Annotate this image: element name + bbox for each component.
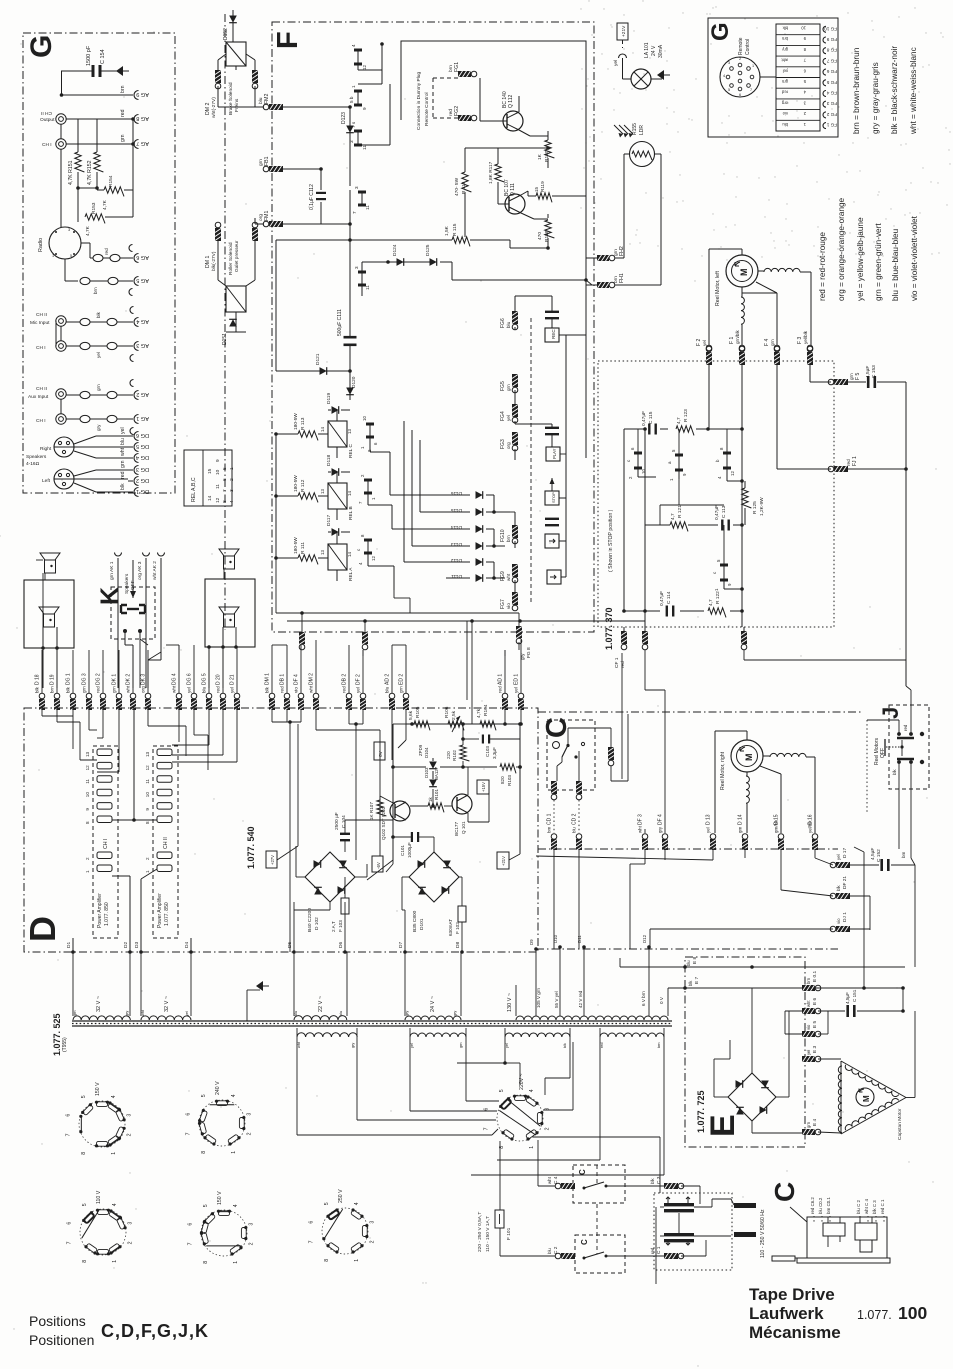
svg-text:D111: D111 <box>451 573 462 579</box>
wire Q112 collector <box>518 100 520 112</box>
svg-text:4,5µF: 4,5µF <box>845 992 850 1004</box>
svg-text:14: 14 <box>347 552 352 557</box>
svg-text:4,7: 4,7 <box>676 417 682 424</box>
wire right verticals <box>914 865 916 967</box>
svg-text:AG 5: AG 5 <box>136 277 149 283</box>
diode D114 <box>450 528 470 530</box>
power amp strip CH II <box>153 746 178 938</box>
jack oval AG6 a <box>93 254 103 261</box>
svg-text:22 V ~: 22 V ~ <box>318 996 324 1012</box>
plug below F left <box>299 632 305 644</box>
capacitor C152 4.5uF <box>880 859 883 871</box>
svg-text:Q102 SDT 9202: Q102 SDT 9202 <box>381 806 386 840</box>
mic ovals row1 <box>80 318 90 325</box>
section box E border <box>685 957 805 1147</box>
svg-text:red: red <box>781 90 788 95</box>
svg-text:5: 5 <box>82 1203 88 1206</box>
svg-text:Left: Left <box>42 478 51 484</box>
svg-text:7: 7 <box>188 1242 194 1245</box>
wire FB1 <box>283 168 321 170</box>
svg-text:blk: blk <box>892 769 897 775</box>
bus line row2 <box>538 848 838 850</box>
capacitor C104 2500uF <box>340 833 350 835</box>
svg-text:org AK 3: org AK 3 <box>137 561 143 580</box>
wire jack chain <box>60 124 62 139</box>
svg-text:red: red <box>600 1043 604 1049</box>
svg-text:4: 4 <box>229 500 235 503</box>
motor capacitor 1 <box>664 1203 694 1206</box>
svg-text:C 3: C 3 <box>656 1176 662 1184</box>
svg-text:2: 2 <box>739 57 741 61</box>
svg-text:grn: grn <box>120 134 126 142</box>
section divider C top <box>538 711 862 713</box>
svg-text:STOP: STOP <box>551 492 556 503</box>
svg-text:630mAT: 630mAT <box>448 919 453 936</box>
svg-text:7: 7 <box>309 1240 315 1243</box>
svg-text:Positions: Positions <box>29 1313 86 1329</box>
svg-text:blk: blk <box>66 686 71 693</box>
svg-text:blk: blk <box>836 885 841 891</box>
wire Q111 emitter <box>521 213 534 219</box>
wire AD1 ED1 below bus <box>504 710 506 724</box>
lamp LA101 <box>631 69 651 89</box>
svg-text:1: 1 <box>229 467 235 470</box>
contact 5-c-9 low <box>723 565 725 580</box>
svg-text:blk(-27V): blk(-27V) <box>211 251 217 271</box>
svg-text:C103: C103 <box>485 746 490 757</box>
wires J box <box>901 740 903 756</box>
selector 110V <box>80 1209 126 1255</box>
svg-text:3: 3 <box>68 228 70 232</box>
svg-text:R153: R153 <box>91 202 97 214</box>
svg-text:red: red <box>216 686 221 693</box>
svg-text:32 V ~: 32 V ~ <box>164 996 170 1012</box>
plug FG1 dummy <box>458 71 471 77</box>
fuse F1 <box>739 345 745 351</box>
wire amp link pin8 <box>112 819 157 821</box>
svg-text:CH II: CH II <box>41 110 52 116</box>
svg-text:5: 5 <box>81 1095 87 1098</box>
plug right of switch <box>567 728 569 745</box>
svg-text:2: 2 <box>229 478 235 481</box>
svg-text:14: 14 <box>207 495 213 501</box>
svg-text:wht: wht <box>172 685 177 693</box>
wire contact 131 to box <box>358 144 390 146</box>
svg-text:REC: REC <box>551 329 556 339</box>
svg-text:grn: grn <box>849 373 854 380</box>
plug DG 5 <box>206 693 212 699</box>
plug DM2 right <box>252 70 258 83</box>
svg-text:6: 6 <box>67 1222 73 1225</box>
jack oval AG5 <box>80 277 90 284</box>
svg-text:7: 7 <box>66 1133 72 1136</box>
svg-text:1: 1 <box>351 85 356 88</box>
svg-text:D124: D124 <box>392 244 398 256</box>
terminal DG 3 <box>134 466 139 475</box>
wire group DB2 below bus <box>348 710 350 724</box>
svg-text:D8: D8 <box>455 942 461 948</box>
svg-text:red = red-rot-rouge: red = red-rot-rouge <box>818 232 827 301</box>
svg-text:DM 2: DM 2 <box>309 673 315 685</box>
svg-text:6 V brn: 6 V brn <box>641 991 646 1006</box>
resistor R111 180-5W <box>276 557 298 559</box>
svg-text:+15V: +15V <box>481 782 486 792</box>
fuse F4 <box>774 345 780 351</box>
diode D120 <box>349 371 351 400</box>
svg-text:yel: yel <box>836 854 841 860</box>
plug DM1 right <box>252 228 258 241</box>
svg-text:D 21: D 21 <box>230 674 236 685</box>
plug DG 2 <box>100 693 106 699</box>
svg-text:4: 4 <box>354 1202 360 1205</box>
resistor R101 1k <box>428 803 444 813</box>
resistor R125 1.2K-9W <box>744 481 746 488</box>
secondary winding 32V b <box>141 1016 191 1020</box>
svg-text:yel: yel <box>230 687 235 693</box>
resistor R120 1K <box>547 131 549 138</box>
wire Q112 base <box>480 120 507 122</box>
svg-text:Remote: Remote <box>738 37 744 55</box>
wire motor top to F2 <box>741 249 743 255</box>
LDR R155 <box>630 142 655 167</box>
mains plug body <box>807 1217 887 1258</box>
svg-text:100: 100 <box>898 1303 927 1323</box>
indicator REC box <box>545 328 559 342</box>
svg-text:470- 5W: 470- 5W <box>454 177 460 196</box>
svg-text:30mA: 30mA <box>658 44 664 58</box>
svg-text:wht: wht <box>806 1000 811 1007</box>
svg-text:Freins: Freins <box>234 98 240 112</box>
svg-text:blu C 2: blu C 2 <box>856 1200 861 1214</box>
resistor R107 1K <box>377 800 387 816</box>
label +27V box <box>266 851 277 868</box>
wire relay rail down <box>275 240 277 371</box>
mains switch box upper <box>573 1165 625 1203</box>
mains plug insert b <box>855 1223 877 1240</box>
svg-text:grn/blk: grn/blk <box>735 330 740 344</box>
svg-text:150 V: 150 V <box>217 1191 223 1205</box>
svg-text:blu: blu <box>572 827 577 833</box>
svg-text:red: red <box>498 686 503 693</box>
svg-text:brn: brn <box>806 977 811 984</box>
svg-text:1: 1 <box>52 254 54 258</box>
diode D121 <box>276 370 350 372</box>
svg-text:D112: D112 <box>451 557 462 563</box>
svg-text:AG 8: AG 8 <box>136 115 149 121</box>
svg-text:red C6.2: red C6.2 <box>810 1197 815 1214</box>
svg-text:blu: blu <box>294 1011 298 1016</box>
svg-text:FG 6: FG 6 <box>826 69 837 74</box>
svg-text:3: 3 <box>248 1223 254 1226</box>
wire rail 429 <box>624 428 645 430</box>
svg-text:DG 2: DG 2 <box>136 477 149 483</box>
resistor R151 4.7K <box>77 119 79 152</box>
svg-text:F 102: F 102 <box>455 922 460 934</box>
svg-text:CH II: CH II <box>163 837 169 849</box>
svg-text:8: 8 <box>85 821 90 824</box>
svg-text:D115: D115 <box>451 507 462 513</box>
wire motor right top <box>746 731 748 740</box>
wire selector pin3 up <box>543 1109 573 1111</box>
switch K contacts <box>121 605 127 613</box>
left speaker lower <box>39 607 59 614</box>
svg-text:D5: D5 <box>287 942 293 948</box>
aux ovals row2 <box>80 415 90 422</box>
transistor Q101 <box>452 794 472 814</box>
svg-text:FG 8: FG 8 <box>526 647 532 658</box>
plug DM 2 <box>313 693 319 699</box>
tube Radio <box>49 227 81 259</box>
terminal AG 1 <box>134 415 139 424</box>
svg-text:AD 2: AD 2 <box>385 674 391 685</box>
plug FH2 <box>597 255 609 261</box>
svg-text:1.077. 525: 1.077. 525 <box>52 1013 62 1056</box>
svg-text:CD 2: CD 2 <box>572 813 578 825</box>
svg-text:6: 6 <box>66 1114 72 1117</box>
terminal DG 1 <box>134 488 139 497</box>
svg-text:Speakers: Speakers <box>26 454 47 460</box>
svg-text:15: 15 <box>207 468 213 474</box>
contact rail stubs <box>637 429 639 452</box>
rail E7 <box>668 987 903 989</box>
svg-text:G: G <box>707 22 734 41</box>
svg-text:C 2: C 2 <box>553 1246 559 1254</box>
diode D103 <box>429 780 437 787</box>
svg-text:B35 C800: B35 C800 <box>412 910 418 932</box>
svg-text:1: 1 <box>85 870 90 873</box>
svg-text:F 103: F 103 <box>338 920 343 932</box>
wire rail 525 <box>645 524 670 526</box>
plug FG6 <box>512 311 518 324</box>
wires row1 stubs <box>178 645 180 650</box>
svg-text:gry: gry <box>453 1011 457 1016</box>
aux input CH II jack <box>56 389 66 399</box>
svg-text:gry: gry <box>125 1011 129 1016</box>
svg-text:2: 2 <box>246 1132 252 1135</box>
svg-text:R 121: R 121 <box>677 505 683 518</box>
svg-text:42 V red: 42 V red <box>578 990 583 1008</box>
svg-text:DG 3: DG 3 <box>82 673 88 685</box>
svg-text:DF 2: DF 2 <box>356 674 362 685</box>
terminal AG 4 <box>134 318 139 327</box>
svg-text:CH I: CH I <box>103 839 109 849</box>
svg-text:wht = white-weiss-blanc: wht = white-weiss-blanc <box>909 47 918 135</box>
svg-text:DG 6: DG 6 <box>187 673 193 685</box>
svg-text:CD 1: CD 1 <box>547 813 553 825</box>
svg-text:Brake Solenoid: Brake Solenoid <box>228 82 234 115</box>
plug D 20 <box>220 693 226 699</box>
svg-text:C 1: C 1 <box>656 1246 662 1254</box>
resistor R102 220 <box>460 745 470 761</box>
svg-text:BA127: BA127 <box>434 766 439 780</box>
winding motor right side <box>763 755 770 757</box>
svg-text:110 - 150 V 1A,T: 110 - 150 V 1A,T <box>485 1216 491 1252</box>
svg-text:ZPD9: ZPD9 <box>418 744 423 756</box>
svg-text:gry: gry <box>658 826 663 833</box>
svg-text:AG 1: AG 1 <box>136 415 149 421</box>
zener D104 <box>429 762 437 769</box>
svg-text:12: 12 <box>362 64 367 70</box>
svg-text:Q 112: Q 112 <box>508 95 514 108</box>
wire rail 621 <box>287 620 645 622</box>
plug DK21 <box>836 893 850 899</box>
svg-text:DG 3: DG 3 <box>136 466 149 472</box>
svg-text:blk C 3: blk C 3 <box>872 1200 877 1214</box>
svg-text:14: 14 <box>320 427 325 432</box>
plug E6 <box>802 1008 815 1014</box>
svg-text:blu: blu <box>339 1011 343 1016</box>
svg-text:4,7: 4,7 <box>708 599 714 606</box>
svg-text:CH II: CH II <box>36 386 47 392</box>
svg-text:0,47µF: 0,47µF <box>659 591 665 606</box>
svg-text:Mécanisme: Mécanisme <box>749 1323 841 1342</box>
svg-text:2: 2 <box>145 857 150 860</box>
svg-text:grn: grn <box>82 686 87 693</box>
wire 21V to lamp <box>622 40 624 48</box>
svg-text:yel: yel <box>187 687 192 693</box>
svg-text:brn: brn <box>120 85 126 93</box>
svg-text:3: 3 <box>127 1222 133 1225</box>
svg-text:FG 1: FG 1 <box>826 123 837 128</box>
svg-text:red: red <box>120 471 126 479</box>
resistor R103 820 <box>500 764 516 774</box>
svg-text:grn: grn <box>73 1011 77 1017</box>
svg-text:R 123: R 123 <box>683 409 689 422</box>
terminal DG 6 <box>134 432 139 441</box>
svg-text:CH I: CH I <box>36 345 46 351</box>
wire LDR to FH <box>623 154 625 258</box>
svg-text:REL C: REL C <box>348 444 354 458</box>
svg-text:6: 6 <box>186 1113 192 1116</box>
svg-text:C 104: C 104 <box>341 815 347 828</box>
primary winding 1 <box>297 1033 357 1037</box>
svg-text:wht: wht <box>297 1041 301 1048</box>
svg-text:ED 1: ED 1 <box>514 674 520 685</box>
svg-text:DG 1: DG 1 <box>136 488 149 494</box>
svg-text:1: 1 <box>112 1260 118 1263</box>
wire DJ1 to D12 <box>650 928 833 930</box>
svg-text:yel: yel <box>410 1043 414 1048</box>
svg-text:blu C0.2: blu C0.2 <box>818 1197 823 1214</box>
svg-text:CH I: CH I <box>36 418 46 424</box>
svg-text:D7: D7 <box>398 942 404 948</box>
svg-text:org: org <box>141 686 146 693</box>
brake solenoid <box>226 42 246 66</box>
svg-text:DF 21: DF 21 <box>842 876 848 889</box>
svg-text:brn: brn <box>50 686 55 693</box>
svg-text:DB 2: DB 2 <box>342 674 348 685</box>
svg-text:D 17: D 17 <box>842 848 848 858</box>
svg-text:blk: blk <box>96 311 101 318</box>
motor capacitor 2 <box>664 1233 694 1236</box>
reel motor left <box>726 255 758 287</box>
svg-text:1: 1 <box>752 64 754 68</box>
svg-text:J: J <box>878 707 903 719</box>
hook mic top <box>130 307 133 314</box>
svg-text:D123: D123 <box>341 112 347 124</box>
svg-text:gry: gry <box>781 47 788 52</box>
svg-text:AG 9: AG 9 <box>136 91 149 97</box>
svg-text:Connection in Dummy Plug: Connection in Dummy Plug <box>416 72 422 130</box>
supply +21V box <box>617 23 628 40</box>
svg-text:24 V: 24 V <box>651 45 657 56</box>
mains cord <box>772 1256 795 1261</box>
plug DM1 left <box>215 228 221 241</box>
wire CF3 drop <box>743 650 745 660</box>
svg-text:grn: grn <box>112 686 117 693</box>
svg-text:6: 6 <box>739 93 741 97</box>
selector 220V mains <box>497 1095 543 1141</box>
mic ovals row2 <box>80 342 90 349</box>
plug C2 <box>561 1253 575 1259</box>
svg-text:brn: brn <box>506 535 511 542</box>
svg-text:R 122: R 122 <box>715 591 721 604</box>
wire primaries routing <box>457 1062 505 1064</box>
svg-text:8: 8 <box>324 1259 330 1262</box>
svg-text:1: 1 <box>145 870 150 873</box>
plug D 15 <box>778 834 784 840</box>
svg-text:yel: yel <box>96 352 101 358</box>
svg-text:AD 1: AD 1 <box>498 674 504 685</box>
svg-text:2 A,T: 2 A,T <box>331 921 336 932</box>
svg-text:grn = green-grün-vert: grn = green-grün-vert <box>874 223 883 301</box>
svg-text:R 115: R 115 <box>452 223 458 236</box>
secondary winding 32V a <box>73 1016 130 1020</box>
svg-text:grn: grn <box>738 826 743 833</box>
svg-text:220V ~: 220V ~ <box>519 1073 525 1090</box>
fuse F3 <box>807 345 813 351</box>
plug CF1 <box>621 631 627 644</box>
resistor R116 470-5W <box>462 172 472 192</box>
svg-text:9: 9 <box>215 459 221 462</box>
capacitor C115 0.47uF <box>648 424 650 435</box>
dashed FG link <box>530 318 532 605</box>
svg-text:DM 1: DM 1 <box>205 255 211 268</box>
terminal DG 2 <box>134 477 139 486</box>
svg-text:E 3: E 3 <box>812 1045 818 1053</box>
terminal AG 2 <box>134 391 139 400</box>
plug DK 3 <box>145 693 151 699</box>
remote box G border <box>708 18 838 137</box>
J contact upper <box>897 737 914 740</box>
svg-text:1: 1 <box>231 1151 237 1154</box>
svg-text:8: 8 <box>81 1152 87 1155</box>
plug E01 <box>802 985 815 991</box>
svg-text:vio: vio <box>506 603 511 609</box>
svg-text:FM1: FM1 <box>264 211 270 221</box>
svg-text:E 7: E 7 <box>694 976 700 984</box>
svg-text:R155: R155 <box>632 123 638 135</box>
svg-text:D 15: D 15 <box>774 814 780 825</box>
svg-text:180-5W: 180-5W <box>293 475 299 492</box>
speaker jack Left <box>54 469 74 489</box>
svg-text:org = orange-orange-orange: org = orange-orange-orange <box>837 197 846 301</box>
terminal DG 4 <box>134 454 139 463</box>
mic input CH I jack <box>56 341 66 351</box>
mains switch box lower <box>575 1235 625 1273</box>
svg-text:7: 7 <box>352 211 357 214</box>
svg-text:Right: Right <box>40 446 52 452</box>
plug FM1 <box>269 221 283 227</box>
terminal DG 5 <box>134 443 139 452</box>
resistor R123 4.7 <box>676 426 694 436</box>
svg-text:yel: yel <box>806 1050 811 1055</box>
reel motor right <box>731 740 763 772</box>
plug FG4 <box>512 404 518 417</box>
svg-text:0,47µF: 0,47µF <box>714 505 720 520</box>
section box D border <box>24 708 538 952</box>
svg-text:yel = yellow-gelb-jaune: yel = yellow-gelb-jaune <box>856 217 865 301</box>
